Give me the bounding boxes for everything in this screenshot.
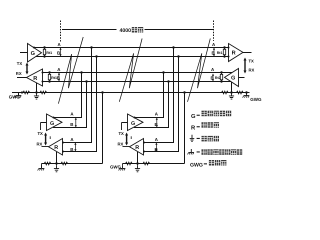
signal ground station1 [34, 93, 39, 100]
arrow TX/RX station1 [26, 63, 29, 75]
svg-text:R: R [135, 145, 139, 151]
wire R1 output RX [17, 77, 27, 79]
driver G4 [225, 69, 239, 87]
svg-text:TX: TX [119, 131, 125, 136]
svg-text:4000: 4000 [120, 28, 132, 34]
wire G3 input TX [122, 123, 128, 131]
svg-text:R: R [33, 76, 37, 82]
svg-text:G: G [131, 121, 135, 127]
dimension dashed tick left [60, 21, 62, 42]
svg-text:B: B [70, 122, 73, 127]
chassis ground station3 [122, 164, 124, 166]
node G1 output A [33, 47, 35, 49]
stub between G3 and R3 [130, 136, 132, 139]
resistor 100ohm station1 b [40, 91, 47, 94]
legend protective/chassis ground [188, 149, 194, 154]
wire station3 ground bus [123, 93, 185, 164]
arrow TX/RX station4 [244, 58, 247, 74]
chassis ground station1 [18, 93, 20, 96]
arrow pair station3 R [155, 143, 157, 152]
receiver R1 [27, 69, 43, 86]
wire R2 input B [63, 57, 97, 152]
svg-text:GWG: GWG [250, 97, 262, 102]
chassis ground station2 [41, 164, 43, 169]
arrow pair station3 G [156, 118, 158, 128]
signal ground station4 [229, 93, 234, 100]
svg-text:Rt2: Rt2 [215, 76, 221, 80]
receiver R4 [229, 44, 244, 62]
driver G1 [28, 44, 42, 63]
break bolt 3 [188, 39, 211, 102]
wire R3 output RX [123, 146, 130, 148]
svg-text:R: R [232, 51, 236, 57]
wire R2 input A [63, 48, 92, 143]
resistor 100ohm station4 a [222, 91, 229, 94]
resistor 100ohm station3 a [126, 162, 133, 165]
resistor Rt2 left pair2 [48, 71, 50, 82]
break bolt 2 [119, 39, 142, 102]
dimension dashed tick right [213, 21, 215, 42]
svg-text:RX: RX [37, 142, 43, 147]
wire G1 input TX [20, 52, 28, 54]
wire G3 output B [134, 82, 169, 128]
resistor 100ohm station4 b [237, 91, 244, 94]
svg-text:B: B [70, 147, 73, 152]
node R4 input A [228, 47, 230, 49]
resistor 100ohm station1 a [23, 91, 30, 94]
wire bus line A [33, 47, 229, 49]
driver G2 [47, 114, 63, 131]
wire station2 ground bus [42, 93, 103, 164]
node R1 input B2 [42, 81, 44, 83]
break bolt 1 [58, 37, 83, 104]
svg-text:RX: RX [249, 68, 255, 73]
wire bus line A2 [43, 72, 233, 74]
arrow TX/RX station3 [125, 133, 128, 146]
wire G2 input TX [41, 123, 47, 131]
arrow pair1 left [59, 48, 61, 57]
svg-text:TX: TX [249, 59, 255, 64]
receiver R2 [49, 139, 63, 156]
signal ground station3 [137, 164, 139, 166]
legend signal ground [190, 135, 195, 142]
arrow pair station2 G [75, 118, 77, 128]
receiver R3 [130, 139, 144, 156]
driver G3 [128, 114, 144, 131]
node R1 input A2 [42, 72, 44, 74]
svg-text:G: G [31, 51, 35, 57]
resistor 100ohm station2 a [44, 162, 51, 165]
svg-text:Rt1: Rt1 [46, 51, 52, 55]
arrow pair2 left [58, 73, 60, 82]
wire R3 input A [144, 48, 174, 143]
wire bus line B [36, 56, 229, 58]
arrow TX/RX station2 [44, 133, 47, 146]
wire R2 ground [56, 152, 58, 164]
svg-text:G: G [231, 76, 235, 82]
wire G2 output A [53, 73, 82, 118]
svg-text:RX: RX [118, 142, 124, 147]
resistor Rt right pair2 [220, 71, 222, 82]
wire G3 output A [134, 73, 164, 118]
arrow pair1 right [213, 48, 215, 57]
svg-text:GWG: GWG [190, 163, 203, 169]
wire R4 output [243, 52, 252, 54]
signal ground station2 [56, 164, 58, 166]
svg-text:R: R [54, 145, 58, 151]
wire ground bus GWG [12, 92, 250, 94]
chassis ground station4 [245, 91, 247, 93]
wire G4 ground [231, 82, 233, 93]
resistor 100ohm station2 b [61, 162, 68, 165]
svg-text:Rt1: Rt1 [217, 51, 223, 55]
svg-text:RX: RX [16, 71, 22, 76]
svg-text:G: G [191, 113, 196, 120]
dimension line 4000 feet [62, 29, 213, 31]
arrow pair2 right [212, 74, 214, 82]
arrow pair station2 R [74, 143, 76, 152]
svg-text:TX: TX [38, 131, 44, 136]
resistor Rt right pair1 [223, 46, 225, 57]
stub between G2 and R2 [49, 136, 51, 139]
svg-text:TX: TX [17, 61, 23, 66]
wire R3 input B [144, 57, 179, 152]
wire bus line B2 [43, 81, 232, 83]
node R4 input B [228, 56, 230, 58]
svg-text:G: G [50, 121, 54, 127]
resistor 100ohm station3 b [143, 162, 150, 165]
wire R2 output RX [42, 146, 49, 148]
wire G2 output B [53, 82, 87, 128]
wire G4 input [239, 77, 245, 79]
wire R3 ground [137, 152, 139, 164]
resistor Rt1 left pair1 [43, 46, 45, 57]
wire R1 ground [36, 83, 38, 93]
